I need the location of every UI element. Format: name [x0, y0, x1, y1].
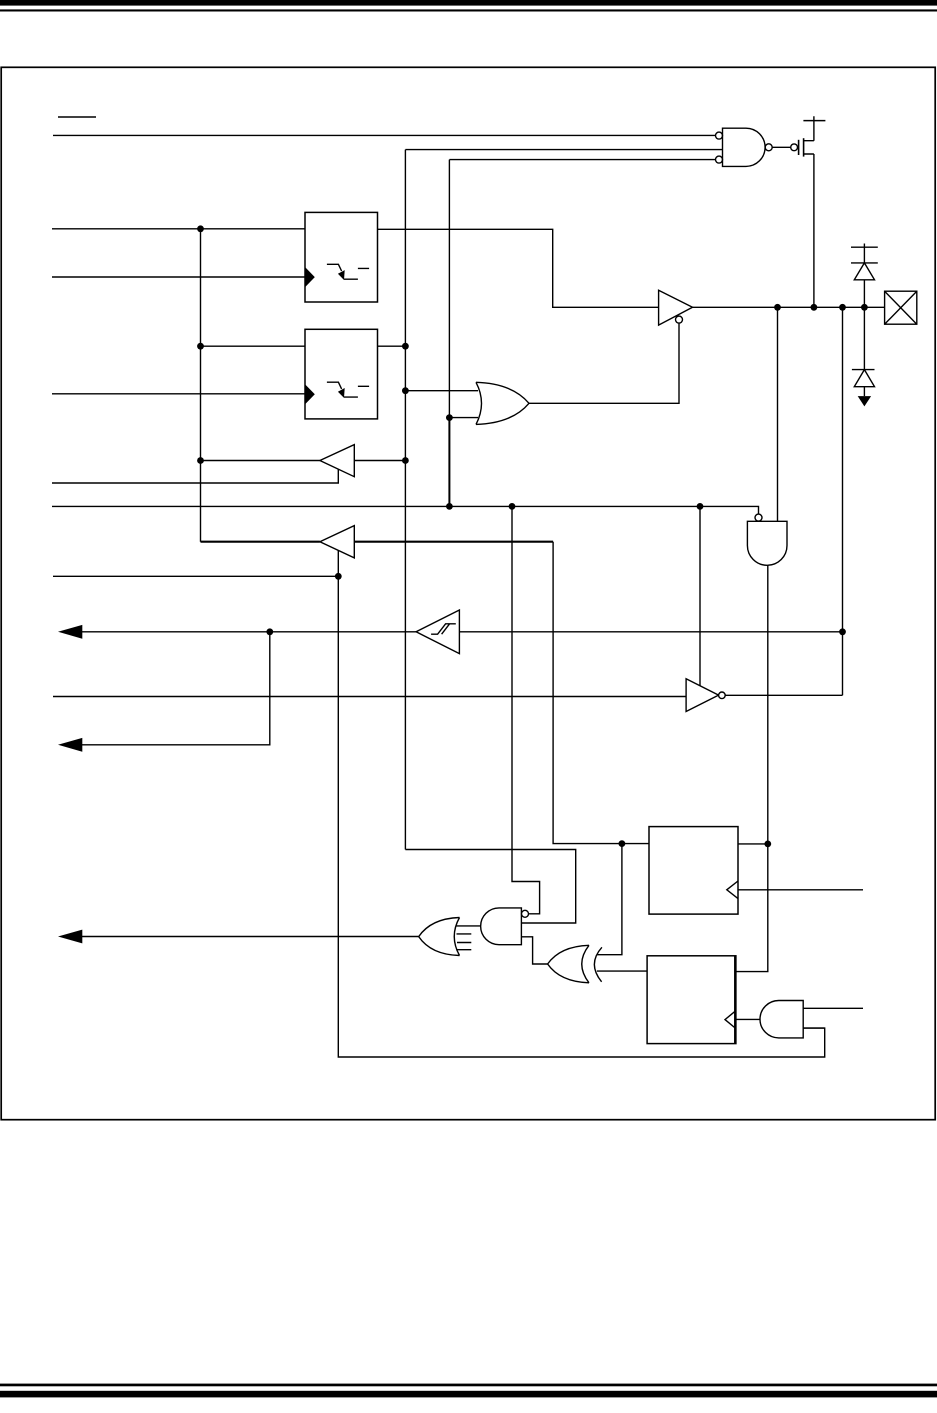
OR gate U4 [476, 382, 529, 424]
wire U14 input 2 [803, 1027, 825, 1029]
data latch U2 [305, 212, 378, 302]
schmitt trigger buffer U9 [416, 610, 459, 654]
wire U9 output with arrow [58, 625, 416, 639]
wire U10 output to pad net [725, 694, 842, 696]
wire node A to U4 input 1 [405, 390, 478, 392]
wire U4 output to driver enable [529, 323, 679, 403]
wire U8 output down to FF nets [736, 565, 768, 971]
NAND gate U12 (left) [481, 908, 529, 945]
TRIS latch U3 [305, 329, 378, 419]
AND gate U14 (FF2 clock) [760, 1001, 803, 1038]
header thin rule [0, 9, 937, 11]
wire U12 output to U11 input 1 [456, 925, 481, 927]
wire RD PORT enable line [53, 575, 338, 577]
vertical wire B [448, 160, 450, 418]
I/O pad pin box [885, 291, 917, 324]
XOR gate U13 (left) [548, 945, 602, 983]
wire U11 output with arrow [58, 930, 419, 944]
wire H3 to NAND U1 input 3 [449, 159, 715, 161]
wire WR TRIS clock to U3 [52, 393, 305, 395]
wire U13 input 1 [597, 844, 622, 955]
NAND gate U8 (2-input, down) [747, 514, 787, 565]
wire arrow branch 2 [58, 632, 270, 752]
footer thick rule [0, 1391, 937, 1398]
flip-flop FF1 [649, 827, 738, 915]
diode D1 to VDD [851, 244, 878, 308]
vertical wire C [512, 506, 540, 913]
wire U14 output to FF2 clock [736, 1018, 760, 1020]
wire H1 to NAND U1 input 1 [53, 134, 716, 136]
wire node A to U6 input [354, 460, 405, 462]
transistor Q1 (P-MOSFET) [791, 138, 814, 156]
wire U13 input 2 to FF2 [597, 970, 647, 972]
wire U6 output to data bus [201, 460, 320, 462]
wire input line L7 [53, 696, 686, 698]
VDD rail for Q1 [803, 116, 825, 141]
wire node B to U4 input 2 [449, 417, 478, 419]
wire Q1 drain to pad line [813, 154, 815, 307]
wire U7 enable stub [337, 551, 339, 577]
flip-flop FF2 [647, 956, 736, 1044]
OR gate U11 (4-input, left) [419, 918, 460, 956]
wire pad line to U8 input 2 [777, 307, 779, 521]
footer thin rule [0, 1384, 937, 1387]
wire U9 input from pad net [459, 631, 842, 633]
wire H2 to NAND U1 input 2 [405, 149, 722, 151]
wire control line L5 to NAND U8 [52, 506, 759, 514]
wire FF1 right to U8 net [738, 843, 768, 845]
diagram border frame [1, 67, 935, 1119]
wire U3 Q output to node A [378, 345, 406, 347]
wire U12 input 3 to XOR output [521, 937, 547, 964]
overbar label mark [58, 116, 96, 118]
wire U5 output pad line [693, 306, 885, 308]
read buffer U7 (RD PORT) [320, 526, 354, 558]
wire data bus to U2 D input [52, 228, 305, 230]
wire U2 Q output to driver buffer [378, 229, 659, 307]
vertical wire pad net branch [842, 307, 844, 695]
diode D2 to VSS [852, 307, 875, 406]
wire U1 output to Q1 gate [772, 146, 790, 148]
wire RD TRIS enable [52, 470, 338, 484]
wire U11 input stubs [456, 934, 471, 950]
vertical wire B lower (thick) [448, 418, 450, 507]
NAND gate U1 [716, 128, 773, 166]
read buffer U6 (RD TRIS) [320, 445, 354, 477]
data bus bottom wire [201, 541, 554, 543]
wire buffer input vertical to FF1 [553, 542, 649, 844]
wire data bus to U3 D input [201, 345, 306, 347]
vertical wire from RD enable node down [338, 576, 824, 1057]
vertical wire D (tri-state enable) [699, 506, 701, 685]
wire WR clock to U2 [52, 276, 305, 278]
header thick rule [0, 0, 937, 6]
wire FF1 clock line [738, 889, 863, 891]
data bus vertical wire [200, 229, 202, 542]
tri-state inverter U10 [686, 679, 725, 712]
vertical wire A [404, 150, 406, 850]
output driver buffer U5 [659, 290, 693, 325]
wire A elbow to NAND U8 input 2 [405, 850, 575, 924]
wire U14 input 1 [803, 1007, 863, 1009]
